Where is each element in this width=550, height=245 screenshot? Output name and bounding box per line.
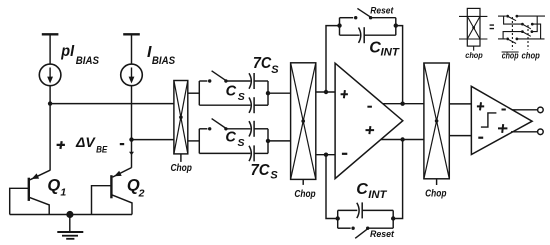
node A dot <box>48 101 52 105</box>
wire split vertical top <box>198 81 200 105</box>
svg-text:chop: chop <box>502 51 519 61</box>
svg-text:Chop: Chop <box>425 189 446 200</box>
wire <box>368 227 394 229</box>
capacitor 7CS bottom <box>249 121 254 137</box>
wire <box>254 152 268 154</box>
comparator U2 <box>471 86 532 154</box>
wire chop2 to opamp bottom <box>316 154 335 156</box>
label IBIAS <box>147 44 175 67</box>
switch row3 <box>521 30 524 33</box>
wire chop2 to opamp top <box>316 91 335 93</box>
wire junction vertical <box>339 18 341 36</box>
wire <box>131 86 133 168</box>
svg-text:7C: 7C <box>253 55 272 72</box>
node dot <box>324 153 328 157</box>
wire chop1 top out <box>188 92 200 94</box>
wire <box>254 128 268 130</box>
label dVBE <box>75 134 108 155</box>
wire to chop2 bottom <box>268 140 291 142</box>
svg-text:S: S <box>238 91 245 103</box>
chopper CH1 <box>174 81 188 162</box>
wire <box>517 38 545 40</box>
wire row4 <box>498 38 506 40</box>
node ground dot <box>66 211 73 218</box>
svg-text:C: C <box>225 130 236 146</box>
wire <box>199 128 207 130</box>
switch row1 <box>506 15 509 18</box>
svg-text:chop: chop <box>522 51 541 61</box>
label plus <box>57 141 65 149</box>
wire emitter rail <box>10 214 132 216</box>
wire <box>49 86 51 171</box>
svg-text:BIAS: BIAS <box>76 55 100 67</box>
wire chop3 to comparator top <box>449 103 471 105</box>
label Q1 <box>47 176 66 198</box>
svg-text:BE: BE <box>96 144 108 155</box>
node dot <box>394 23 398 27</box>
svg-text:7C: 7C <box>251 162 270 179</box>
wire top to chop1 <box>50 103 174 105</box>
wire cross down <box>532 24 540 39</box>
switch row4 <box>506 38 509 41</box>
svg-text:BIAS: BIAS <box>152 55 176 67</box>
current source pIBIAS <box>39 64 61 86</box>
wire split vertical bottom <box>198 129 200 154</box>
wire bottom feedback right vertical <box>393 140 402 219</box>
svg-text:C: C <box>356 181 368 198</box>
switch S1 <box>208 71 228 83</box>
supply bar left <box>42 33 59 35</box>
wire junction vertical <box>337 210 339 228</box>
svg-text:C: C <box>369 40 381 57</box>
switch row2 <box>521 23 524 26</box>
wire comparator out bottom <box>511 131 538 133</box>
svg-text:INT: INT <box>368 189 387 201</box>
label CINT bottom <box>356 181 387 201</box>
wire join vertical top <box>267 81 269 105</box>
wire <box>226 128 251 130</box>
node dot <box>391 216 395 220</box>
wire cross up <box>532 16 537 32</box>
label CINT top <box>369 40 400 59</box>
switch Reset top <box>354 8 372 19</box>
svg-text:1: 1 <box>60 187 66 199</box>
label minus <box>120 143 124 145</box>
legend switch network <box>498 15 545 52</box>
svg-text:Reset: Reset <box>370 229 395 239</box>
wire bracket row3 <box>503 32 521 39</box>
wire comparator out top <box>512 109 538 111</box>
supply bar right <box>123 33 140 35</box>
wire row1 <box>498 15 506 17</box>
wire <box>338 227 351 229</box>
svg-text:Reset: Reset <box>370 6 394 16</box>
capacitor 7CS top <box>249 73 254 89</box>
svg-text:chop: chop <box>465 50 483 60</box>
wire opamp out bottom <box>381 139 424 141</box>
wire to chop2 top <box>268 92 291 94</box>
output terminal bottom <box>538 129 544 135</box>
label Q2 <box>127 177 145 200</box>
wire <box>254 80 268 82</box>
ground <box>57 215 83 239</box>
svg-text:pI: pI <box>60 43 74 60</box>
wire bottom to chop1 <box>132 139 174 141</box>
output terminal top <box>538 107 544 113</box>
switch S2 <box>208 119 228 131</box>
wire top feedback left vertical <box>326 26 340 92</box>
transistor Q2 <box>92 168 133 215</box>
node B dot <box>129 137 133 141</box>
wire <box>364 34 396 36</box>
wire join vertical bottom <box>267 129 269 154</box>
capacitor CINT bottom <box>357 202 362 218</box>
overline chopb <box>502 51 519 53</box>
wire junction vertical right <box>395 18 397 36</box>
node dot <box>266 91 270 95</box>
legend equals sign <box>490 25 494 29</box>
wire <box>254 104 268 106</box>
wire bracket row2 <box>504 16 521 24</box>
transistor Q1 <box>10 170 50 214</box>
legend chop symbol <box>459 8 487 50</box>
switch Reset bottom <box>351 227 369 239</box>
node dot <box>324 90 328 94</box>
svg-text:Q: Q <box>47 176 60 194</box>
chopper CH2 <box>291 63 316 185</box>
current source IBIAS <box>121 64 143 86</box>
svg-text:ΔV: ΔV <box>75 134 96 150</box>
control line chop <box>527 25 529 50</box>
control line chopb <box>511 17 513 50</box>
svg-text:C: C <box>226 83 237 99</box>
wire bottom feedback left vertical <box>326 155 338 219</box>
wire <box>371 17 396 19</box>
chopper CH3 <box>424 63 449 185</box>
node dot <box>400 137 404 141</box>
wire <box>362 209 393 211</box>
node dot <box>266 139 270 143</box>
svg-text:2: 2 <box>138 187 145 199</box>
svg-text:Chop: Chop <box>170 163 192 174</box>
wire <box>340 34 360 36</box>
node dot <box>400 102 404 106</box>
wire <box>340 17 354 19</box>
label pIBIAS <box>60 43 99 67</box>
node dot <box>336 216 340 220</box>
wire opamp out top <box>383 103 424 105</box>
wire <box>199 80 207 82</box>
op-amp U1 <box>335 63 403 178</box>
svg-text:Chop: Chop <box>294 189 315 200</box>
node dot <box>337 23 341 27</box>
wire chop1 bottom out <box>188 140 200 142</box>
svg-text:INT: INT <box>381 47 401 59</box>
wire top feedback right vertical <box>396 26 403 104</box>
svg-text:S: S <box>270 170 278 182</box>
current arrow on IBIAS wire <box>129 152 134 156</box>
label CS top <box>226 83 245 103</box>
wire junction vertical right <box>392 210 394 228</box>
wire chop3 to comparator bottom <box>449 135 471 137</box>
capacitor CINT top <box>359 27 365 43</box>
wire <box>199 104 250 106</box>
label 7CS top <box>253 55 279 76</box>
wire <box>517 15 545 17</box>
wire <box>131 34 133 64</box>
capacitor CS top <box>249 97 254 113</box>
svg-text:S: S <box>271 64 279 76</box>
wire <box>226 80 251 82</box>
wire <box>199 152 250 154</box>
wire <box>49 34 51 64</box>
capacitor CS bottom <box>249 145 254 161</box>
label CS bottom <box>225 130 244 150</box>
wire <box>338 209 358 211</box>
label 7CS bottom <box>251 162 279 182</box>
svg-text:S: S <box>238 137 245 149</box>
